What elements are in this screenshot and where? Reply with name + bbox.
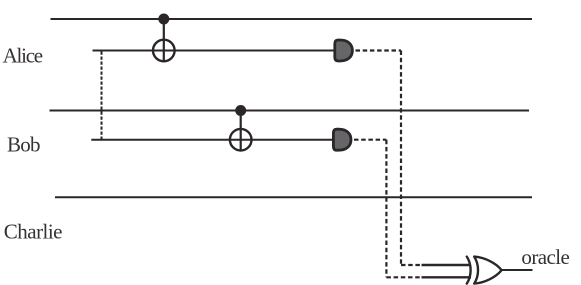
wire dashed vertical classical line from D1 down xyxy=(400,51,402,266)
svg-text:oracle: oracle xyxy=(521,245,569,269)
wire Alice qubit line 2 xyxy=(93,50,335,52)
gate measurement detector D2 on Bob line xyxy=(333,129,351,150)
wire dashed vertical classical line from D2 down xyxy=(385,140,387,278)
wire dashed horizontal to oracle lower input xyxy=(386,276,422,278)
svg-text:Alice: Alice xyxy=(3,44,44,68)
wire dashed classical line from D2 to corner xyxy=(354,139,386,141)
wire top qubit line 1 xyxy=(51,18,533,20)
wire dashed classical line from D1 to corner xyxy=(356,49,402,51)
wire Bob qubit line 4 xyxy=(91,139,333,141)
wire CNOT 2 vertical control line xyxy=(240,111,242,151)
gate XOR oracle xyxy=(467,257,502,284)
svg-text:Bob: Bob xyxy=(7,133,41,157)
node control dot of CNOT 2 xyxy=(235,105,246,116)
wire dashed horizontal to oracle upper input xyxy=(401,264,422,266)
gate CNOT 2 target on Bob line xyxy=(230,129,252,151)
wire solid lead into oracle upper input xyxy=(422,264,472,266)
node control dot of CNOT 1 xyxy=(158,14,169,25)
gate CNOT 1 target on Alice line xyxy=(153,40,175,62)
wire CNOT 1 vertical control line xyxy=(163,19,165,62)
wire solid lead into oracle lower input xyxy=(422,276,472,278)
gate measurement detector D1 on Alice line xyxy=(335,40,353,61)
wire dashed entanglement link between Alice and Bob lines xyxy=(101,52,103,140)
wire Charlie qubit line 5 xyxy=(55,196,532,198)
wire oracle output line xyxy=(501,269,532,271)
wire middle qubit line 3 xyxy=(50,110,530,112)
svg-text:Charlie: Charlie xyxy=(4,220,63,244)
